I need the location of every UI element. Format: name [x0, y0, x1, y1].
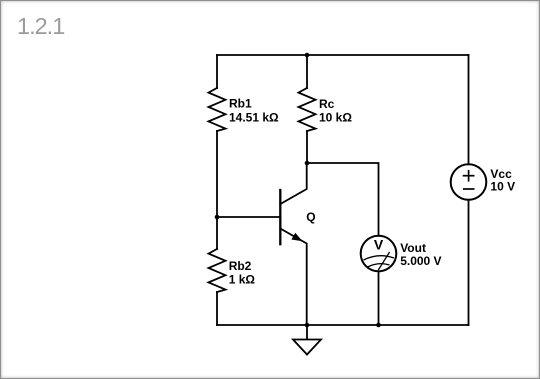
svg-text:1 kΩ: 1 kΩ: [229, 272, 256, 286]
svg-text:Rc: Rc: [319, 97, 335, 111]
svg-text:5.000 V: 5.000 V: [400, 254, 441, 268]
svg-text:V: V: [374, 237, 384, 253]
svg-text:10 V: 10 V: [490, 180, 515, 194]
svg-text:Q: Q: [306, 210, 315, 224]
svg-text:Rb2: Rb2: [229, 259, 252, 273]
svg-text:10 kΩ: 10 kΩ: [319, 110, 352, 124]
svg-text:14.51 kΩ: 14.51 kΩ: [229, 110, 279, 124]
svg-text:Vout: Vout: [400, 241, 426, 255]
svg-text:Rb1: Rb1: [229, 97, 252, 111]
